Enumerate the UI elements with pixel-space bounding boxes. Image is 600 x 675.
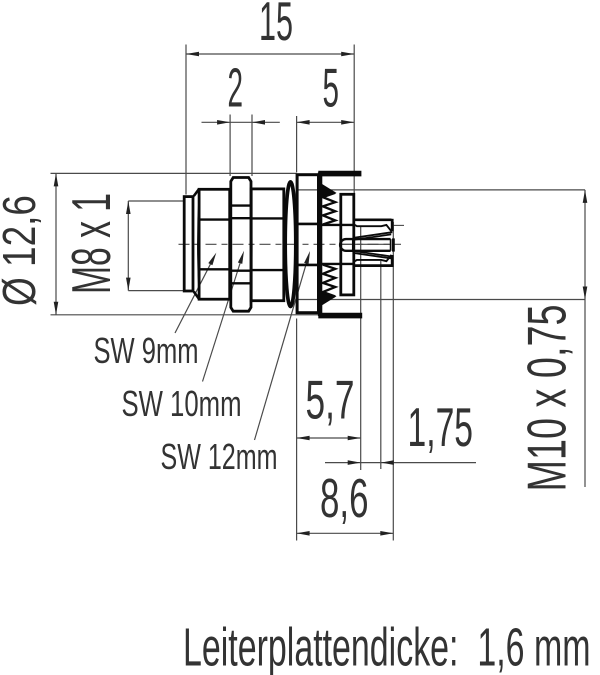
contact slot xyxy=(340,239,391,251)
arrowhead SW 9mm xyxy=(208,253,216,266)
arrow 5 left xyxy=(297,120,310,125)
arrow 1,75 right xyxy=(381,460,394,465)
dim line 5,7 xyxy=(297,437,361,439)
ext line 5 left xyxy=(296,116,298,172)
lower latch slot diagonals xyxy=(353,251,392,257)
arrow 8,6 right xyxy=(380,531,393,536)
ext line M10 top xyxy=(297,189,585,191)
svg-text:5: 5 xyxy=(323,57,340,119)
svg-text:1,75: 1,75 xyxy=(408,396,474,458)
dim line dia 12,6 xyxy=(55,173,57,314)
thread teeth bottom solid crest xyxy=(322,293,335,305)
hex nut SW10 xyxy=(231,178,251,312)
neck line upper xyxy=(321,224,354,226)
svg-text:Leiterplattendicke: 1,6 mm: Leiterplattendicke: 1,6 mm xyxy=(183,619,591,675)
arrow dia top xyxy=(54,173,59,186)
arrow 1,75 left xyxy=(348,460,361,465)
svg-text:5,7: 5,7 xyxy=(306,369,355,431)
arrow 15 left xyxy=(186,52,199,57)
front ring xyxy=(184,197,193,291)
dim line 2 xyxy=(202,121,280,123)
body facet line lower xyxy=(251,269,284,271)
ext line 15 left xyxy=(185,45,187,195)
arrow 2 right xyxy=(252,120,265,125)
nut facet lines xyxy=(231,204,251,206)
arrow 8,6 left xyxy=(297,531,310,536)
arrow M10 bottom xyxy=(583,287,588,300)
svg-text:SW 12mm: SW 12mm xyxy=(161,436,278,477)
ext line M8 top xyxy=(128,200,183,202)
chamfer top xyxy=(194,189,199,196)
arrow 5,7 right xyxy=(348,436,361,441)
contact tip block xyxy=(392,238,395,251)
svg-text:8,6: 8,6 xyxy=(320,467,369,529)
top cap xyxy=(318,171,361,177)
dim line M8x1 xyxy=(127,201,129,291)
ext line latch barb xyxy=(380,261,382,469)
SW12 facet line upper xyxy=(297,223,318,226)
lower latch underside xyxy=(354,255,391,262)
leader SW 12mm xyxy=(255,257,309,440)
ext line 2 right xyxy=(251,115,253,177)
lower latch tip xyxy=(391,255,394,267)
arrow dia bottom xyxy=(54,302,59,315)
arrowhead SW 10mm xyxy=(238,251,244,264)
step cylinder xyxy=(341,194,354,295)
body facet line upper xyxy=(251,217,284,219)
arrow 15 right xyxy=(341,52,354,57)
ext line dia top xyxy=(51,172,297,174)
dim line 15 xyxy=(186,53,354,55)
arrow M8 bottom xyxy=(126,278,131,291)
upper latch slot diagonals xyxy=(353,232,392,238)
bottom cap xyxy=(318,313,362,319)
leader SW 10mm xyxy=(203,257,243,382)
thread teeth bottom zigzag xyxy=(323,265,336,297)
contact right closure xyxy=(390,239,392,251)
dim line 8,6 xyxy=(297,532,394,534)
centerline axis xyxy=(179,243,402,245)
svg-text:M10 x 0,75: M10 x 0,75 xyxy=(516,305,578,492)
ext line M10 bottom xyxy=(297,299,585,301)
leader SW 9mm xyxy=(175,257,214,333)
ext line flange face lower xyxy=(296,319,298,541)
nut right face arc xyxy=(250,183,253,306)
nut left face arc xyxy=(229,183,232,306)
contact inner cap line xyxy=(352,238,354,251)
chamfer bottom xyxy=(194,292,199,299)
lower latch arm bottom xyxy=(353,264,391,267)
arrowhead SW 12mm xyxy=(304,251,310,264)
svg-text:15: 15 xyxy=(259,0,293,52)
ext line M8 bottom xyxy=(128,290,183,292)
arrow M8 top xyxy=(126,201,131,214)
arrow M10 top xyxy=(583,190,588,203)
ext line dia bottom xyxy=(51,314,319,316)
ext line 2 left xyxy=(229,115,231,177)
svg-text:SW 10mm: SW 10mm xyxy=(122,383,242,424)
neck line lower xyxy=(321,263,354,265)
dim line 5 xyxy=(297,121,355,123)
hex body SW9 xyxy=(199,189,230,299)
flange SW12 xyxy=(297,175,318,313)
thread teeth top zigzag xyxy=(323,193,336,225)
dim line 1,75 xyxy=(325,462,476,464)
upper latch underside xyxy=(354,225,391,232)
ext line 15 right xyxy=(353,45,355,194)
arrow 5,7 left xyxy=(297,436,310,441)
svg-text:M8 x 1: M8 x 1 xyxy=(60,193,122,294)
stub line at latch tip xyxy=(394,224,405,226)
ext line latch tip xyxy=(392,222,394,541)
SW12 facet line lower xyxy=(297,264,318,267)
svg-text:SW 9mm: SW 9mm xyxy=(94,330,199,371)
panel line xyxy=(318,172,322,316)
arrow 2 left xyxy=(217,120,230,125)
upper latch arm top xyxy=(353,218,391,221)
upper latch tip xyxy=(391,219,394,232)
arrow 5 right xyxy=(341,120,354,125)
seal ring xyxy=(285,182,296,307)
thread teeth top solid crest xyxy=(322,185,335,197)
centerline solid segment through contact xyxy=(339,243,392,245)
body section xyxy=(251,189,284,301)
SW9 facet line lower xyxy=(199,268,230,270)
SW9 face arc xyxy=(198,192,200,297)
ext line cylinder end xyxy=(360,227,362,471)
svg-text:Ø 12,6: Ø 12,6 xyxy=(0,195,45,306)
dim line M10x0,75 xyxy=(584,190,586,487)
SW9 facet line upper xyxy=(199,218,230,220)
svg-text:2: 2 xyxy=(228,57,244,119)
